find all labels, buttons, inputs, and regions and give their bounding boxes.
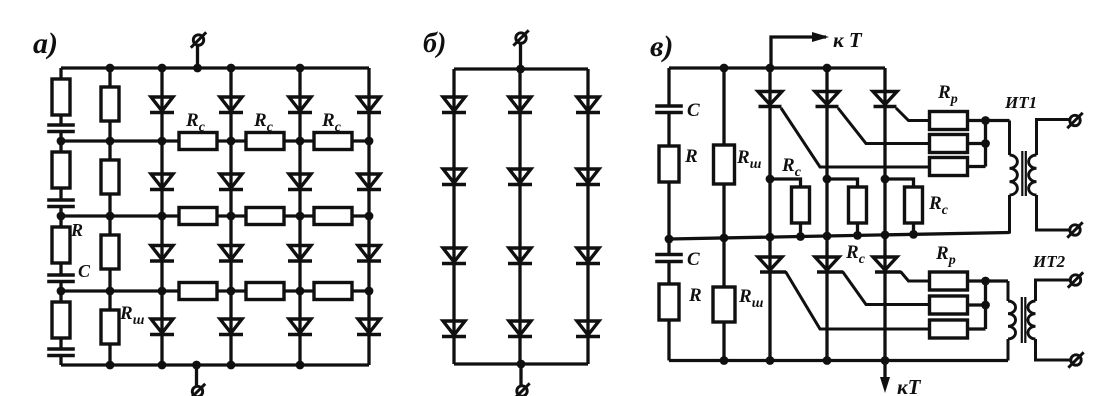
wire node to IT2 v [986, 279, 1009, 282]
wire Rp3 right stub top v [968, 165, 986, 168]
junction [766, 356, 775, 365]
transformer IT2 primary lead [1007, 281, 1010, 301]
junction [227, 287, 236, 296]
capacitor C snubber 4 [47, 349, 75, 356]
junction [227, 361, 236, 370]
wire thyristor column 3 v [883, 68, 886, 361]
terminal IT1 out bottom [1067, 222, 1082, 237]
transformer IT2 core [1021, 297, 1023, 343]
resistor R snubber 2 [52, 152, 70, 188]
thyristor VS1 top v [758, 92, 782, 107]
resistor Rsh bottom v [713, 287, 735, 322]
wire Rp2 right stub bottom v [968, 303, 986, 306]
transformer IT1 secondary winding [1029, 155, 1037, 195]
wire Rp common node top v [984, 121, 987, 167]
diode V22 b [508, 169, 532, 185]
terminal phase top a [191, 32, 206, 47]
wire bottom bus v [669, 359, 1008, 362]
terminal phase bottom a [190, 384, 205, 396]
thyristor VS3 top v [873, 92, 897, 107]
diode V41 b [442, 321, 466, 337]
junction [766, 64, 775, 73]
wire Rp1 right stub bottom v [968, 279, 986, 282]
diode V11 a [150, 97, 174, 113]
resistor Rp3 top v [930, 158, 968, 176]
junction [720, 356, 729, 365]
transformer IT1 primary winding [1010, 155, 1018, 195]
transformer IT2 secondary winding [1028, 301, 1036, 339]
junction [516, 65, 525, 74]
diode V11 b [442, 97, 466, 113]
wire to control bottom v [883, 361, 886, 380]
junction [227, 137, 236, 146]
junction [823, 356, 832, 365]
wire node to IT1 v [986, 119, 1010, 122]
transformer IT1 primary bottom lead [1008, 195, 1011, 234]
junction [158, 361, 167, 370]
svg-text:R: R [688, 285, 702, 306]
junction [106, 212, 115, 221]
resistor R snubber 1 [52, 79, 70, 115]
junction [517, 360, 526, 369]
wire diode column 4 a [367, 68, 370, 365]
junction [365, 212, 374, 221]
wire diode column 2 a [229, 68, 232, 365]
junction [106, 287, 115, 296]
resistor Rc2 mid v [849, 187, 867, 223]
resistor R top v [659, 146, 679, 182]
svg-text:C: C [78, 261, 91, 281]
junction [106, 137, 115, 146]
wire diode column 3 a [298, 68, 301, 365]
wire middle bus v [669, 233, 1010, 240]
junction [981, 139, 990, 148]
junction [796, 232, 805, 241]
wire top bus v [669, 66, 885, 69]
wire Rp2 right stub top v [968, 142, 986, 145]
diode V12 b [508, 97, 532, 113]
diode V12 a [219, 97, 243, 113]
wire Rp1 right stub top v [968, 119, 986, 122]
wire gate VS3 bottom v [901, 272, 931, 282]
junction [296, 361, 305, 370]
junction [881, 356, 890, 365]
terminal IT1 out top [1067, 113, 1082, 128]
junction [296, 64, 305, 73]
wire gate VS1 bottom v [786, 272, 931, 330]
svg-text:ИТ1: ИТ1 [1004, 93, 1037, 112]
wire bus a row 2 [61, 214, 369, 217]
diode V43 b [576, 321, 600, 337]
wire gate VS1 top v [781, 108, 930, 167]
diode V33 a [288, 246, 312, 262]
svg-text:к Т: к Т [833, 28, 863, 52]
diode V31 b [442, 248, 466, 264]
diode V14 a [357, 97, 381, 113]
svg-text:R: R [70, 220, 83, 240]
resistor Rsh shunt 2 [101, 160, 119, 194]
resistor Rp3 bottom v [930, 320, 968, 338]
terminal IT2 out bottom [1068, 352, 1083, 367]
wire bottom bus b [454, 362, 588, 365]
junction [909, 230, 918, 239]
capacitor C snubber 3 [47, 275, 75, 282]
terminal phase bottom b [514, 383, 529, 396]
junction [766, 233, 775, 242]
junction [57, 137, 66, 146]
junction [881, 230, 890, 239]
wire diode column 3 b [586, 69, 589, 364]
junction [720, 234, 729, 243]
wire top terminal stub a [196, 46, 199, 68]
svg-text:C: C [687, 249, 700, 270]
wire IT2 secondary bottom lead [1036, 339, 1071, 360]
resistor Rc row2 col1 a [179, 208, 217, 225]
diode V24 a [357, 174, 381, 190]
resistor R bottom v [659, 284, 679, 320]
arrow to T bottom [880, 377, 890, 393]
resistor R snubber 4 [52, 302, 70, 338]
svg-text:кТ: кТ [897, 375, 922, 396]
diode V34 a [357, 246, 381, 262]
terminal IT2 out top [1068, 272, 1083, 287]
resistor Rc row3 col2 a [246, 283, 284, 300]
thyristor VS2 bottom v [815, 257, 843, 272]
wire Rc3 elbow v [885, 179, 914, 236]
diode V23 a [288, 174, 312, 190]
resistor Rp2 bottom v [930, 296, 968, 314]
wire bus a row 3 [61, 289, 369, 292]
diode V43 a [288, 319, 312, 335]
transformer IT1 core [1021, 151, 1023, 196]
resistor Rc1 mid v [792, 187, 810, 223]
junction [296, 287, 305, 296]
resistor Rc row1 col1 a [179, 133, 217, 150]
resistor Rp2 top v [930, 135, 968, 153]
junction [365, 287, 374, 296]
diode V31 a [150, 246, 174, 262]
junction [981, 277, 990, 286]
wire diode column 2 b [518, 69, 521, 364]
capacitor C snubber 2 [47, 200, 75, 207]
wire IT1 secondary top lead [1037, 120, 1070, 156]
resistor Rc row3 col1 a [179, 283, 217, 300]
resistor Rsh shunt 3 [101, 235, 119, 269]
wire bottom terminal stub b [519, 364, 522, 386]
transformer IT1 primary lead [1008, 121, 1011, 156]
junction [720, 64, 729, 73]
wire Rp3 right stub bottom v [968, 327, 986, 330]
junction [365, 137, 374, 146]
junction [981, 301, 990, 310]
wire shunt chain a [108, 68, 111, 365]
diode V13 b [576, 97, 600, 113]
wire to control top v [771, 37, 826, 68]
resistor Rc row2 col3 a [314, 208, 352, 225]
diode V33 b [576, 248, 600, 264]
wire Rsh chain v [722, 68, 725, 361]
capacitor C bottom v [655, 255, 683, 262]
junction [823, 175, 832, 184]
svg-text:R: R [684, 146, 698, 167]
resistor Rp1 bottom v [930, 272, 968, 290]
thyristor VS1 bottom v [758, 257, 786, 272]
capacitor C snubber 1 [47, 125, 75, 132]
wire IT1 secondary bottom lead [1037, 195, 1070, 230]
wire diode column 1 b [452, 69, 455, 364]
junction [57, 212, 66, 221]
resistor Rc row1 col2 a [246, 133, 284, 150]
svg-text:в): в) [650, 30, 673, 63]
capacitor C top v [655, 106, 683, 113]
svg-text:C: C [687, 100, 700, 121]
diode V32 a [219, 246, 243, 262]
wire Rc2 elbow v [827, 179, 858, 237]
thyristor VS2 top v [815, 92, 839, 107]
wire thyristor column 2 v [825, 68, 828, 361]
svg-text:б): б) [423, 28, 446, 59]
wire Rc1 elbow v [770, 179, 801, 238]
diode V42 a [219, 319, 243, 335]
junction [766, 175, 775, 184]
resistor Rsh shunt 4 [101, 310, 119, 344]
junction [823, 64, 832, 73]
svg-text:ИТ2: ИТ2 [1032, 252, 1066, 271]
terminal phase top b [513, 30, 528, 45]
junction [227, 64, 236, 73]
diode V42 b [508, 321, 532, 337]
junction [158, 212, 167, 221]
junction [665, 235, 674, 244]
junction [193, 64, 202, 73]
wire top bus a [61, 66, 369, 69]
wire gate VS2 top v [838, 108, 930, 144]
diode V21 a [150, 174, 174, 190]
svg-text:а): а) [33, 27, 58, 60]
junction [158, 64, 167, 73]
wire IT2 secondary top lead [1036, 280, 1070, 301]
wire thyristor column 1 v [768, 68, 771, 361]
junction [57, 287, 66, 296]
wire top terminal stub b [519, 44, 522, 69]
diode V23 b [576, 169, 600, 185]
resistor Rc row1 col3 a [314, 133, 352, 150]
resistor Rsh top v [714, 145, 735, 184]
junction [158, 137, 167, 146]
diode V41 a [150, 319, 174, 335]
resistor Rc row2 col2 a [246, 208, 284, 225]
junction [227, 212, 236, 221]
resistor Rp1 top v [930, 112, 968, 130]
wire bus a row 1 [61, 139, 369, 142]
resistor R snubber 3 [52, 227, 70, 263]
wire bottom bus a [61, 363, 369, 366]
junction [106, 64, 115, 73]
wire top bus b [454, 67, 588, 70]
junction [981, 116, 990, 125]
diode V21 b [442, 169, 466, 185]
junction [192, 361, 201, 370]
transformer IT2 primary winding [1008, 301, 1016, 339]
junction [106, 361, 115, 370]
junction [823, 232, 832, 241]
diode V44 a [357, 319, 381, 335]
junction [296, 212, 305, 221]
junction [881, 175, 890, 184]
arrow to T top [812, 32, 829, 42]
diode V22 a [219, 174, 243, 190]
junction [158, 287, 167, 296]
junction [296, 137, 305, 146]
wire RC chain v [667, 68, 670, 361]
junction [853, 231, 862, 240]
wire gate VS2 bottom v [843, 272, 931, 305]
wire gate VS3 top v [896, 108, 930, 121]
wire diode column 1 a [160, 68, 163, 365]
wire Rp common node bottom v [984, 281, 987, 329]
thyristor VS3 bottom v [873, 257, 901, 272]
wire bottom terminal stub a [195, 365, 198, 386]
resistor Rc3 mid v [905, 187, 923, 223]
resistor Rc row3 col3 a [314, 283, 352, 300]
transformer IT2 primary bottom lead [1007, 339, 1010, 361]
diode V32 b [508, 248, 532, 264]
resistor Rsh shunt 1 [101, 87, 119, 121]
wire snubber chain a [59, 68, 62, 365]
diode V13 a [288, 97, 312, 113]
